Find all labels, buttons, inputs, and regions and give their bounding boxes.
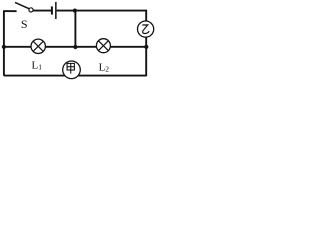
label S: [21, 17, 28, 31]
wire: battery to top-right corner: [57, 10, 147, 12]
wire: right vertical side: [145, 10, 147, 76]
node: top junction dot: [73, 9, 77, 13]
battery negative plate (short): [51, 6, 53, 14]
wire: top segment from left corner to switch: [3, 10, 16, 12]
wire: switch to battery segment: [33, 10, 51, 12]
node: left middle junction dot: [2, 45, 6, 49]
svg-text:2: 2: [105, 64, 109, 73]
switch S blade: [15, 2, 29, 8]
node: middle junction dot: [73, 45, 77, 49]
lamp L2: [96, 39, 110, 53]
node: right middle junction dot: [144, 45, 148, 49]
wire: left vertical side: [3, 11, 5, 76]
svg-text:1: 1: [38, 63, 42, 72]
label L1: [32, 59, 43, 71]
battery positive plate (tall): [55, 2, 57, 19]
meter 乙 (right branch): [138, 21, 154, 37]
wire: middle lamp row: [4, 46, 146, 48]
label L2: [99, 61, 110, 73]
wire: bottom row: [4, 75, 146, 77]
switch S contact circle: [29, 8, 33, 12]
lamp L1: [31, 39, 45, 53]
wire: middle vertical drop from top junction: [74, 11, 76, 48]
svg-text:S: S: [21, 17, 28, 31]
meter 甲 (ammeter, bottom): [63, 61, 81, 79]
